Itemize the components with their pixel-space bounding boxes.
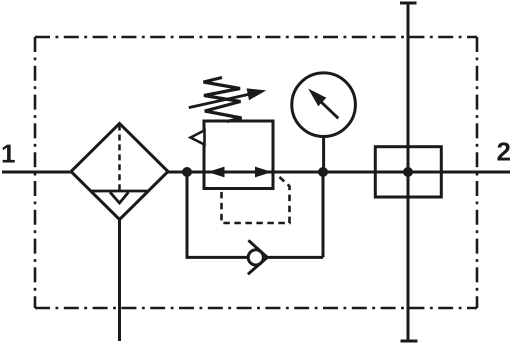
wire: gauge stem [322,136,325,172]
filter F1 element (dashed center line) [118,125,121,191]
port 1 label [3,145,15,163]
pressure gauge G1 needle head [308,89,326,107]
regulator U1 relief vent triangle [191,130,205,144]
regulator U1 spring [204,78,242,122]
regulator U1 left flow arrow [208,167,225,178]
regulator U1 adjustment arrow head [247,88,267,100]
port 2 label [497,142,510,160]
check valve V1 seat [248,240,267,274]
node C (outlet module center) [403,167,413,177]
filter F1 separator bowl line [91,190,149,193]
regulator U1 pilot feedback dashed line [222,177,290,223]
filter F1 body (diamond) [71,124,168,220]
regulator U1 adjustment arrow shaft [189,94,252,108]
node A (junction before regulator) [182,167,192,177]
wire: vertical branch line through outlet module [407,3,410,341]
wire: condensate drain line [118,220,121,342]
filter F1 separator chevron [110,192,129,203]
check valve V1 ball [248,250,263,265]
pressure gauge G1 dial [292,73,356,137]
wire: main line from filter to outlet port 2 [168,171,510,174]
assembly enclosure (dash-dot frame) [35,37,477,308]
regulator U1 body [204,121,273,189]
outlet module block [375,147,441,197]
wire: bypass from check valve up to node B [267,172,323,257]
bottom port cap [401,340,418,343]
pressure gauge G1 needle shaft [322,102,339,118]
node B (gauge junction) [318,167,328,177]
top port cap [400,2,417,5]
regulator U1 right flow arrow [255,167,272,178]
wire: main inlet line from port 1 to filter [2,171,71,174]
wire: bypass down from node A [187,172,247,257]
